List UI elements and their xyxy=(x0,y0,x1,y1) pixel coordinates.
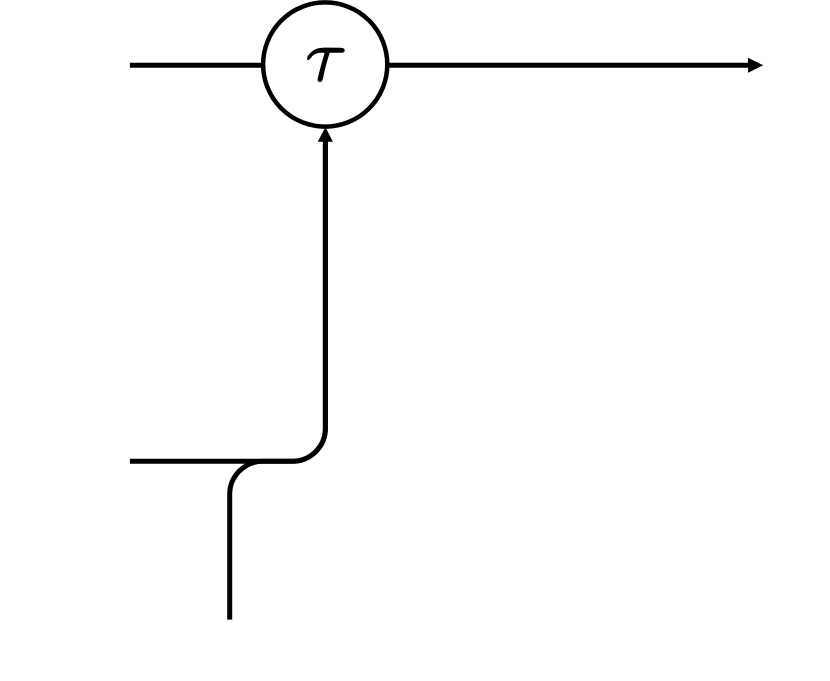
wire: left input to delay block xyxy=(130,63,263,68)
wire: output of delay block to the right xyxy=(387,63,750,68)
arrowhead: right output arrow xyxy=(748,58,763,73)
arrowhead: up arrow into bottom of delay block xyxy=(318,127,333,142)
label: tau (italic math glyph) inside circle xyxy=(307,48,345,82)
delay block: circle node xyxy=(263,2,387,126)
wire: lower-left input, rounded corner up into vertical arrow xyxy=(130,141,326,462)
wire: bottom vertical input merging right into the same vertical arrow xyxy=(230,141,326,620)
